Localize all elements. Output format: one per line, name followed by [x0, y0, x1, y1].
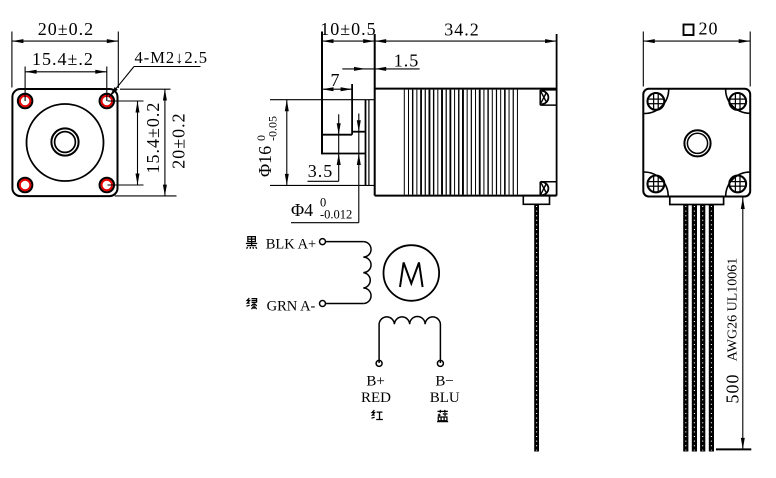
svg-text:15.4±0.2: 15.4±0.2	[143, 102, 163, 174]
svg-text:RED: RED	[361, 390, 391, 406]
svg-text:B−: B−	[435, 374, 453, 390]
svg-text:7: 7	[331, 70, 341, 90]
svg-text:3.5: 3.5	[308, 161, 334, 181]
svg-text:20: 20	[699, 19, 719, 39]
svg-text:10±0.5: 10±0.5	[320, 19, 376, 39]
svg-text:GRN A-: GRN A-	[267, 299, 316, 315]
svg-text:34.2: 34.2	[444, 20, 480, 40]
svg-text:Φ16: Φ16	[255, 146, 275, 177]
svg-text:1.5: 1.5	[394, 51, 420, 71]
svg-text:15.4±.2: 15.4±.2	[32, 49, 94, 69]
svg-text:500: 500	[723, 374, 743, 404]
svg-text:AWG26 UL10061: AWG26 UL10061	[726, 258, 741, 361]
svg-text:BLU: BLU	[430, 390, 460, 406]
svg-text:-0.05: -0.05	[266, 116, 280, 141]
svg-text:20±0.2: 20±0.2	[38, 19, 94, 39]
svg-text:4-M2↓2.5: 4-M2↓2.5	[135, 48, 209, 67]
svg-text:B+: B+	[366, 374, 384, 390]
svg-text:BLK A+: BLK A+	[266, 237, 316, 253]
svg-text:20±0.2: 20±0.2	[169, 112, 189, 168]
svg-text:Φ4: Φ4	[291, 200, 313, 220]
svg-text:-0.012: -0.012	[320, 208, 352, 222]
